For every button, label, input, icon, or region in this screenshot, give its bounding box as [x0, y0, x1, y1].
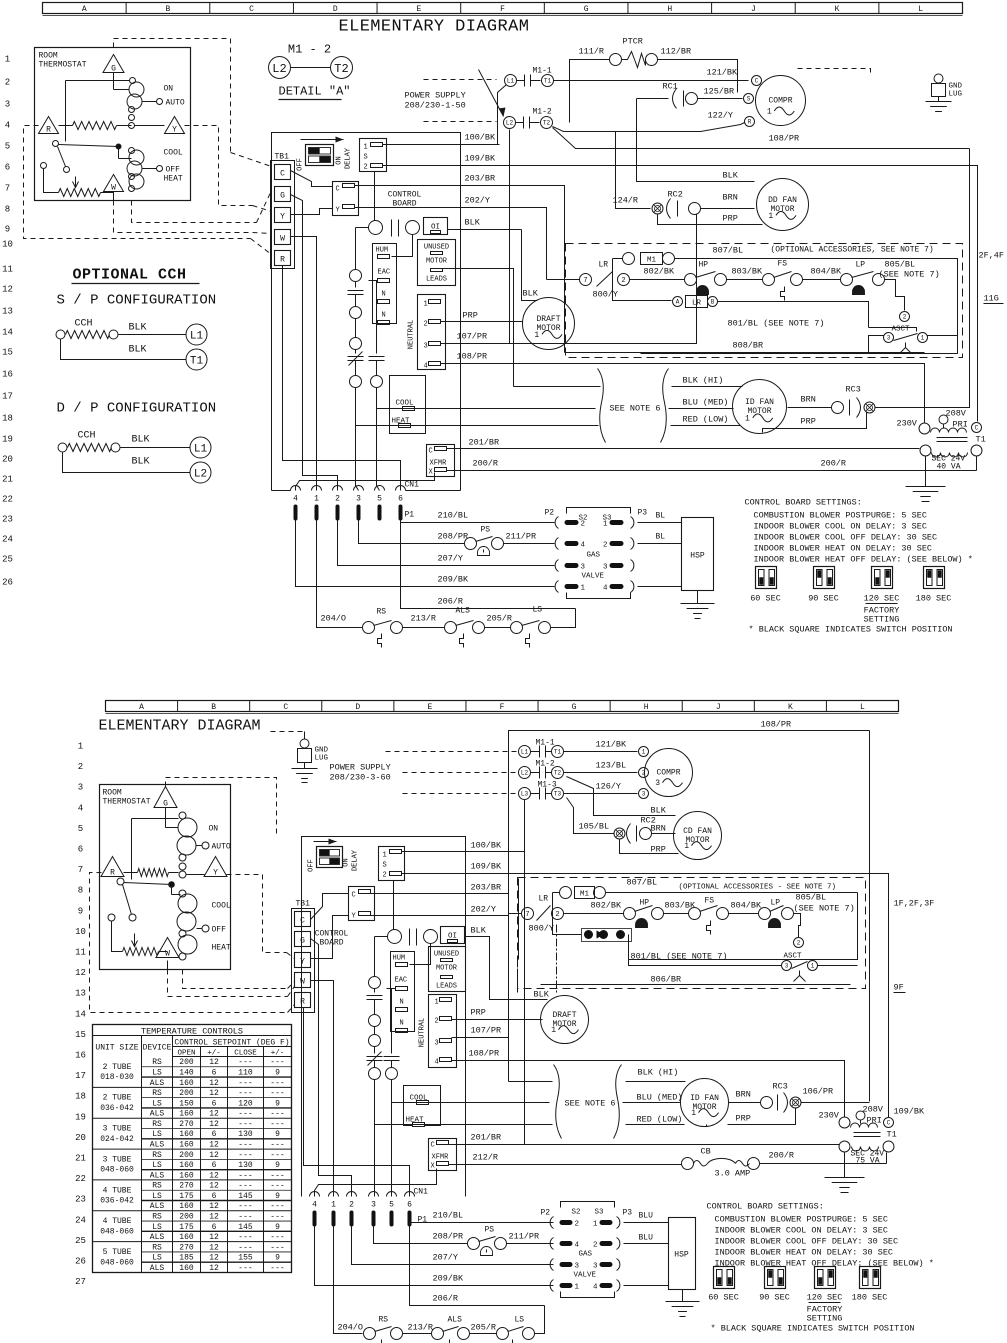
svg-text:FS: FS: [778, 260, 788, 269]
optional accessories dashed box: [566, 244, 963, 358]
FS switch (bottom): [689, 897, 729, 935]
svg-text:THERMOSTAT: THERMOSTAT: [103, 798, 151, 807]
left contact (bottom): [108, 914, 115, 945]
svg-text:2: 2: [335, 495, 340, 504]
svg-text:4 TUBE: 4 TUBE: [103, 1186, 132, 1195]
wire 210/BL: [401, 521, 555, 523]
arrow to L2: [479, 70, 506, 117]
svg-text:(SEE NOTE 7): (SEE NOTE 7): [794, 904, 855, 914]
chain2 arc5 down: [391, 1080, 393, 1197]
svg-text:202/Y: 202/Y: [465, 196, 491, 206]
wire 109/BK label: [471, 862, 503, 872]
primary coil (top): [931, 425, 967, 433]
svg-text:* BLACK SQUARE INDICATES SWIT: * BLACK SQUARE INDICATES SWITCH POSITION: [711, 1324, 915, 1334]
svg-text:COOL: COOL: [212, 902, 231, 911]
svg-text:150: 150: [179, 1099, 194, 1108]
gnd lug (bottom): [271, 732, 329, 783]
svg-text:160: 160: [179, 1130, 194, 1139]
svg-text:9: 9: [5, 225, 10, 235]
svg-text:2 TUBE: 2 TUBE: [103, 1063, 132, 1072]
dashed feed L1: [424, 79, 497, 81]
label 207/Y (bottom): [433, 1253, 459, 1263]
gas valve bracket bottom: [567, 593, 631, 599]
wire to Y (bottom): [187, 874, 205, 876]
wire BLK dd fan: [637, 99, 755, 182]
svg-text:130: 130: [238, 1130, 253, 1139]
svg-text:140: 140: [179, 1068, 194, 1077]
label 100/BK (top): [465, 133, 497, 143]
label P3 (bottom): [623, 1209, 633, 1218]
RC2 (bottom): [627, 816, 656, 844]
title ELEMENTARY DIAGRAM (bottom): [99, 718, 261, 735]
svg-text:---: ---: [270, 1264, 284, 1273]
svg-text:12: 12: [209, 1182, 219, 1191]
wire heat: [356, 425, 599, 427]
wire T13 to compressor: [564, 793, 638, 795]
junction 105/BL: [614, 828, 625, 839]
svg-text:C: C: [975, 425, 979, 432]
xfmr ground (bottom): [825, 1153, 865, 1193]
svg-text:1: 1: [691, 1109, 696, 1118]
svg-text:803/BK: 803/BK: [732, 267, 764, 277]
wire 202/Y pin (bottom): [371, 915, 466, 917]
wire 201/BR (bottom): [449, 1144, 840, 1146]
svg-text:107/PR: 107/PR: [471, 1026, 502, 1036]
svg-text:800/Y: 800/Y: [593, 290, 619, 300]
svg-text:109/BK: 109/BK: [465, 154, 497, 164]
svg-text:808/BR: 808/BR: [733, 341, 764, 351]
svg-text:CCH: CCH: [78, 431, 96, 442]
svg-text:S: S: [364, 154, 368, 162]
connector 1S2 (top): [360, 139, 387, 172]
cap circle left: [369, 221, 383, 235]
heading S/P CONFIGURATION: [57, 293, 217, 309]
svg-text:SETTING: SETTING: [807, 1314, 843, 1324]
svg-text:121/BK: 121/BK: [596, 740, 628, 750]
svg-text:C: C: [431, 1142, 435, 1150]
svg-text:M1: M1: [580, 891, 590, 899]
svg-text:230V: 230V: [897, 419, 918, 429]
label 105/BL: [579, 822, 610, 832]
svg-text:MOTOR: MOTOR: [692, 1103, 716, 1112]
label 121/BK (bottom): [596, 740, 628, 750]
svg-text:12: 12: [209, 1089, 219, 1098]
wire LP right (bottom): [794, 914, 801, 938]
svg-text:1: 1: [768, 212, 773, 221]
svg-text:BLK: BLK: [723, 171, 739, 181]
svg-text:HEAT: HEAT: [164, 175, 183, 184]
heading control board settings (bottom): [707, 1202, 824, 1212]
svg-text:RC3: RC3: [846, 385, 861, 395]
svg-text:4: 4: [5, 121, 10, 131]
terminal L2 (D/P): [190, 462, 211, 483]
svg-text:POWER SUPPLY: POWER SUPPLY: [405, 91, 466, 101]
svg-text:BRN: BRN: [723, 193, 738, 203]
delay dip (bottom): [317, 847, 343, 868]
wire EAC left: [369, 280, 378, 282]
wire 202/Y label: [471, 905, 497, 915]
svg-text:3: 3: [78, 783, 83, 793]
wire TB1 R down (bottom): [304, 1008, 410, 1197]
svg-text:T1: T1: [887, 1130, 897, 1140]
svg-text:9: 9: [275, 1130, 280, 1139]
label BLK 2: [129, 345, 147, 356]
label BLK (top): [465, 218, 481, 228]
svg-text:HEAT: HEAT: [212, 944, 231, 953]
label BLK (cd fan): [651, 806, 667, 816]
svg-text:9: 9: [275, 1192, 280, 1201]
svg-text:1: 1: [5, 55, 10, 65]
terminal L1 (S/P): [186, 324, 207, 345]
svg-text:ELEMENTARY DIAGRAM: ELEMENTARY DIAGRAM: [99, 718, 261, 735]
title ELEMENTARY DIAGRAM (top): [339, 18, 530, 37]
svg-text:3: 3: [655, 779, 660, 788]
svg-text:R: R: [280, 256, 285, 265]
compressor COMPR (bottom): [645, 749, 693, 797]
chain2 up (bottom): [391, 989, 393, 1051]
svg-text:DEVICE: DEVICE: [143, 1044, 172, 1053]
label optional accessories (top): [771, 246, 934, 255]
connector C/Y (top): [333, 182, 359, 216]
svg-text:60 SEC: 60 SEC: [750, 594, 781, 604]
svg-text:G: G: [280, 192, 285, 201]
svg-text:N: N: [400, 999, 404, 1007]
CCH heater S/P: [56, 330, 118, 339]
svg-text:200: 200: [179, 1058, 194, 1067]
pressure switch PS: [465, 526, 504, 556]
svg-text:19: 19: [75, 1112, 86, 1122]
node (bottom): [179, 871, 186, 878]
label 106/PR: [803, 1087, 834, 1097]
svg-text:160: 160: [179, 1233, 194, 1242]
wire HP-FS (bottom): [664, 913, 689, 915]
svg-text:16: 16: [2, 370, 13, 380]
label 802/BK (bottom): [591, 901, 623, 911]
label CN1 (top): [405, 481, 420, 490]
svg-text:CLOSE: CLOSE: [234, 1050, 257, 1058]
svg-text:D / P CONFIGURATION: D / P CONFIGURATION: [57, 401, 217, 417]
wire LP right: [885, 280, 905, 311]
svg-text:100/BK: 100/BK: [471, 841, 503, 851]
cap circle right: [406, 221, 420, 235]
chain2 circle: [371, 376, 383, 388]
label ON vertical: [336, 156, 344, 164]
svg-text:ALS: ALS: [448, 1316, 463, 1325]
svg-text:PS: PS: [485, 1226, 495, 1235]
terminal W triangle (top): [104, 175, 124, 193]
label 126/Y: [596, 782, 622, 792]
svg-text:MOTOR: MOTOR: [685, 836, 709, 845]
outer box (bottom right): [509, 731, 870, 1082]
label 108/PR low: [457, 352, 488, 362]
wire RC2 to motor (bottom): [652, 833, 676, 835]
wire rc3 to riser: [801, 1102, 870, 1104]
table header CONTROL SETPOINT: [174, 1039, 289, 1048]
svg-text:3: 3: [581, 564, 586, 572]
svg-text:LR: LR: [599, 261, 609, 270]
delay dip switch: [306, 145, 334, 166]
svg-text:1: 1: [575, 1284, 580, 1292]
svg-text:807/BL: 807/BL: [627, 878, 658, 888]
chain line: [355, 319, 357, 338]
svg-text:DELAY: DELAY: [345, 147, 353, 169]
label 107/PR: [457, 332, 488, 342]
chain circle 1: [350, 270, 362, 282]
room thermostat box (top): [35, 48, 191, 201]
FS switch: [763, 260, 803, 301]
svg-text:F: F: [500, 5, 505, 14]
svg-text:DD FAN: DD FAN: [768, 196, 797, 205]
svg-text:160: 160: [179, 1202, 194, 1211]
label POWER SUPPLY (top): [405, 91, 466, 111]
svg-text:---: ---: [238, 1058, 252, 1067]
svg-text:111/R: 111/R: [579, 47, 605, 57]
connector CN1 arcs (top): [291, 486, 406, 504]
svg-text:P3: P3: [638, 509, 648, 518]
svg-text:---: ---: [238, 1151, 252, 1160]
wire HUM to cap (bottom): [410, 944, 431, 965]
wire TB1 G down (bottom): [311, 939, 352, 1197]
wire cool: [377, 408, 596, 410]
wire M1 left (bottom): [553, 893, 582, 935]
svg-text:LS: LS: [152, 1161, 162, 1170]
svg-text:LS: LS: [152, 1192, 162, 1201]
svg-text:P2: P2: [541, 1209, 551, 1218]
svg-text:R: R: [110, 869, 115, 878]
svg-text:ASCT: ASCT: [892, 326, 911, 334]
svg-text:8: 8: [5, 205, 10, 215]
wire brn rc3: [788, 407, 832, 409]
gas valve bracket top (bottom): [561, 1202, 615, 1208]
label CN1 (bottom): [414, 1188, 429, 1197]
table header DEVICE: [143, 1044, 172, 1053]
TB1 terminal C (top): [275, 165, 291, 180]
wire 206/R (bottom): [410, 1223, 545, 1306]
svg-text:RS: RS: [152, 1243, 162, 1252]
svg-text:175: 175: [179, 1223, 194, 1232]
wire brn rc3 (bottom): [729, 1102, 761, 1104]
svg-text:C: C: [887, 1120, 891, 1127]
dashed feed L2: [424, 121, 497, 123]
vertical wire (bottom therm): [132, 819, 179, 880]
capacitor on board: [392, 220, 399, 237]
svg-text:206/R: 206/R: [433, 1294, 459, 1304]
chain cap: [348, 282, 364, 307]
svg-text:L3: L3: [521, 791, 529, 798]
wire 105/BL: [567, 798, 614, 834]
svg-text:DETAIL "A": DETAIL "A": [279, 85, 351, 99]
svg-text:20: 20: [75, 1133, 86, 1143]
wire 7 left: [547, 279, 580, 281]
svg-text:ALS: ALS: [150, 1202, 165, 1211]
svg-text:---: ---: [270, 1120, 284, 1129]
svg-text:---: ---: [238, 1079, 252, 1088]
label 804/BK (bottom): [731, 901, 763, 911]
label BLK draft (bottom): [534, 990, 550, 1000]
svg-text:C: C: [429, 448, 433, 456]
dashed route C (bottom): [183, 970, 295, 989]
bottom row numbers 1-27: [75, 742, 86, 1288]
rollout switch RS (bottom): [364, 1316, 403, 1343]
svg-text:S2: S2: [572, 1209, 581, 1217]
wire asct1 right (bottom): [818, 965, 858, 967]
svg-text:UNUSED: UNUSED: [424, 244, 449, 252]
chain arc3 down: [374, 1080, 376, 1197]
svg-text:1: 1: [534, 331, 539, 340]
svg-text:LS: LS: [515, 1316, 525, 1325]
svg-text:CN1: CN1: [405, 481, 420, 490]
wire 210/BL (bottom): [410, 1223, 554, 1227]
svg-text:108/PR: 108/PR: [457, 352, 488, 362]
svg-text:036-042: 036-042: [100, 1104, 134, 1113]
svg-text:BLK: BLK: [132, 457, 150, 468]
svg-text:BRN: BRN: [736, 1090, 751, 1100]
wire 209/BK (bottom): [315, 1227, 554, 1286]
svg-text:Y: Y: [280, 213, 285, 222]
svg-text:M1-2: M1-2: [533, 108, 552, 117]
svg-text:5: 5: [389, 1201, 394, 1210]
svg-text:ROOM: ROOM: [103, 789, 122, 798]
HUM EAC N N (bottom): [391, 952, 415, 1033]
svg-text:12: 12: [209, 1058, 219, 1067]
svg-text:COMBUSTION BLOWER POSTPURGE:: COMBUSTION BLOWER POSTPURGE: 5 SEC: [715, 1215, 888, 1225]
connector CN1 arcs (bottom): [310, 1192, 415, 1210]
svg-text:RS: RS: [152, 1120, 162, 1129]
svg-text:4: 4: [581, 542, 586, 550]
xfmr core: [937, 438, 968, 442]
wire xfmr gnd: [906, 457, 946, 502]
svg-text:160: 160: [179, 1171, 194, 1180]
svg-text:---: ---: [270, 1202, 284, 1211]
svg-text:270: 270: [179, 1120, 194, 1129]
label S2 S3 (bottom): [572, 1209, 605, 1217]
chain circle 4: [350, 376, 362, 388]
label 801/BL: [728, 319, 825, 329]
svg-text:* BLACK SQUARE INDICATES SWIT: * BLACK SQUARE INDICATES SWITCH POSITION: [749, 625, 953, 635]
svg-text:ON: ON: [336, 156, 344, 164]
aux contact M1: [613, 253, 941, 265]
svg-text:180 SEC: 180 SEC: [852, 1293, 888, 1303]
svg-text:K: K: [835, 5, 840, 14]
wire blk hi 2 (bottom): [626, 1081, 686, 1083]
dashed route G (bottom): [166, 778, 277, 837]
label 208/PR: [438, 532, 469, 542]
dip switch 180 SEC (top): [916, 567, 952, 604]
svg-text:13: 13: [2, 307, 13, 317]
wire 203/BR pin (bottom): [371, 893, 466, 895]
wire heat (bottom): [375, 1124, 553, 1126]
node Y row: [129, 123, 135, 129]
wire asct 3 left: [869, 336, 884, 353]
svg-text:14: 14: [75, 1009, 86, 1019]
svg-text:204/O: 204/O: [321, 614, 347, 624]
label T1 xfmr: [976, 435, 986, 445]
label BLK draft: [523, 289, 539, 299]
label P1 (bottom): [418, 1216, 428, 1225]
svg-text:1: 1: [593, 1221, 598, 1229]
svg-text:BRN: BRN: [651, 824, 666, 834]
svg-text:160: 160: [179, 1140, 194, 1149]
label 208V (bottom): [863, 1105, 884, 1115]
wire 108/PR: [553, 128, 970, 149]
svg-text:(OPTIONAL ACCESSORIES - SEE NO: (OPTIONAL ACCESSORIES - SEE NOTE 7): [679, 884, 837, 892]
label 205/R (bottom): [471, 1323, 497, 1333]
inner box (bottom): [519, 879, 858, 960]
svg-text:BLK: BLK: [465, 218, 481, 228]
label BLK 3: [132, 435, 150, 446]
svg-text:210/BL: 210/BL: [433, 1211, 464, 1221]
svg-text:L1: L1: [194, 443, 208, 455]
label P2 (bottom): [541, 1209, 551, 1218]
label 204/O: [321, 614, 347, 624]
svg-text:T2: T2: [554, 770, 562, 777]
svg-text:RS: RS: [379, 1316, 389, 1325]
secondary coil (bottom): [852, 1147, 879, 1152]
label VALVE: [582, 573, 605, 581]
dip switch 90 SEC (bottom): [759, 1267, 790, 1303]
svg-text:3: 3: [575, 1263, 580, 1271]
svg-text:4: 4: [603, 585, 608, 593]
heading D/P CONFIGURATION: [57, 401, 217, 417]
label 125/BR: [704, 87, 735, 97]
svg-text:CONTROL BOARD SETTINGS:: CONTROL BOARD SETTINGS:: [707, 1202, 824, 1212]
TB1 terminal R (top): [275, 251, 291, 266]
label 805/BL: [879, 260, 940, 280]
svg-text:13: 13: [75, 989, 86, 999]
svg-text:---: ---: [238, 1171, 252, 1180]
svg-text:OFF: OFF: [166, 166, 181, 175]
svg-text:BLK: BLK: [471, 926, 487, 936]
svg-text:HUM: HUM: [376, 247, 389, 255]
wire 212/R: [449, 1164, 682, 1166]
label PRP id (bottom): [736, 1114, 751, 1124]
svg-text:LEADS: LEADS: [426, 276, 447, 284]
svg-text:208V: 208V: [946, 409, 967, 419]
svg-text:BLU: BLU: [639, 1234, 654, 1243]
dip switch 120 SEC (top): [864, 567, 900, 625]
wire fuse down: [629, 935, 782, 966]
svg-text:155: 155: [238, 1254, 253, 1263]
svg-text:106/PR: 106/PR: [803, 1087, 834, 1097]
wire BLK (bottom): [465, 937, 548, 1000]
svg-text:7: 7: [5, 184, 10, 194]
label 200/R right: [821, 459, 847, 469]
svg-text:T1: T1: [190, 355, 204, 367]
xfmr core (bottom): [854, 1133, 881, 1137]
label 9F: [894, 983, 906, 993]
wire gv row4 to HSP: [638, 586, 682, 588]
svg-text:3: 3: [5, 100, 10, 110]
dashed route G: [114, 39, 272, 167]
label 210/BL (bottom): [433, 1211, 464, 1221]
label 806/BR: [651, 975, 682, 985]
svg-text:3: 3: [435, 1040, 439, 1048]
svg-text:208/230-1-50: 208/230-1-50: [405, 101, 466, 111]
svg-text:C: C: [249, 5, 254, 14]
svg-text:270: 270: [179, 1182, 194, 1191]
svg-text:210/BL: 210/BL: [438, 511, 469, 521]
label HEAT (bottom): [212, 944, 231, 953]
svg-text:3: 3: [603, 564, 608, 572]
wire ALS-LS (bottom): [470, 1333, 497, 1335]
svg-text:018-030: 018-030: [100, 1073, 134, 1082]
label P2: [545, 509, 555, 518]
svg-text:3: 3: [642, 791, 646, 798]
svg-text:201/BR: 201/BR: [471, 1133, 502, 1143]
svg-text:201/BR: 201/BR: [469, 438, 500, 448]
wire PTCR right: [658, 60, 738, 93]
svg-text:5: 5: [5, 142, 10, 152]
